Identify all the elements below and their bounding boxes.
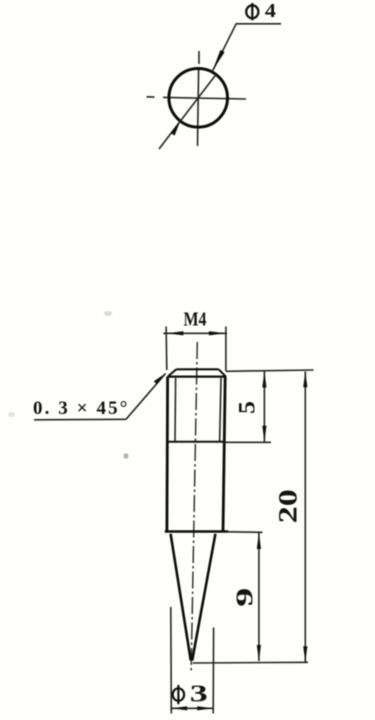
dimension line 9 xyxy=(258,533,260,661)
dimension line 5 xyxy=(263,372,265,442)
arrow 5 top xyxy=(262,372,266,388)
dimension line 20 xyxy=(304,372,306,663)
diameter line through circle xyxy=(159,75,216,150)
body: line below chamfer xyxy=(168,376,226,378)
arrow 5 bottom xyxy=(262,426,266,442)
phi3: left extension line xyxy=(170,607,173,714)
M4 dimension: right extension line xyxy=(225,327,227,372)
faint scan speck left margin xyxy=(8,412,15,417)
svg-text:20: 20 xyxy=(273,489,302,523)
extension line below thread (5 dim) xyxy=(224,441,271,443)
body: chamfer top edge xyxy=(176,368,218,370)
chamfer note underline xyxy=(34,418,126,421)
arrow 9 bottom xyxy=(257,645,261,661)
svg-text:9: 9 xyxy=(233,588,259,607)
chamfer leader line xyxy=(126,374,166,420)
cone right side xyxy=(192,534,215,661)
svg-text:4: 4 xyxy=(265,0,276,22)
label phi4: phi symbol xyxy=(246,3,258,20)
svg-text:3: 3 xyxy=(190,682,208,708)
top extension line (5 and 20 dims) xyxy=(226,370,314,371)
thread root line left (thin) xyxy=(174,378,177,442)
phi3: right extension line xyxy=(212,628,214,714)
body: chamfer left diagonal xyxy=(168,369,177,376)
arrowhead upper (points to circle) xyxy=(213,50,225,71)
phi3 dimension line xyxy=(171,707,213,709)
front view: vertical centerline xyxy=(191,342,197,673)
M4 dimension: left extension line xyxy=(165,327,168,371)
label phi3: phi symbol xyxy=(173,685,184,704)
M4 arrow left xyxy=(166,331,183,335)
svg-text:0. 3 × 45°: 0. 3 × 45° xyxy=(33,398,129,419)
top view: horizontal centerline xyxy=(147,97,247,99)
M4 dimension line xyxy=(163,332,227,334)
shoulder line at cone base xyxy=(165,530,228,533)
faint scan speck near M4 xyxy=(104,311,112,316)
top view: vertical centerline xyxy=(198,51,200,146)
top view: circle (outline of pin) xyxy=(169,69,228,128)
arrow 20 top xyxy=(303,371,307,387)
phi3 arrow left xyxy=(171,706,187,710)
leader line to phi4 label xyxy=(213,24,281,71)
faint scan speck left of body xyxy=(123,453,128,459)
chamfer leader arrowhead xyxy=(154,373,167,385)
arrow 20 bottom xyxy=(303,646,307,662)
bottom extension line (9 and 20 dims) xyxy=(193,661,308,664)
shoulder extension line (9 dim) xyxy=(228,531,263,534)
thread root line right (thin) xyxy=(220,378,221,442)
phi3 arrow right xyxy=(197,706,213,710)
body: right edge xyxy=(223,377,225,532)
M4 arrow right xyxy=(209,331,226,335)
arrow 9 top xyxy=(257,533,261,549)
svg-text:5: 5 xyxy=(234,401,259,414)
body: chamfer right diagonal xyxy=(219,369,226,376)
thread end line xyxy=(167,441,224,443)
svg-text:M4: M4 xyxy=(184,308,207,330)
arrowhead lower (points to circle) xyxy=(171,121,181,135)
cone left side xyxy=(171,534,191,661)
body: left edge xyxy=(165,377,169,532)
